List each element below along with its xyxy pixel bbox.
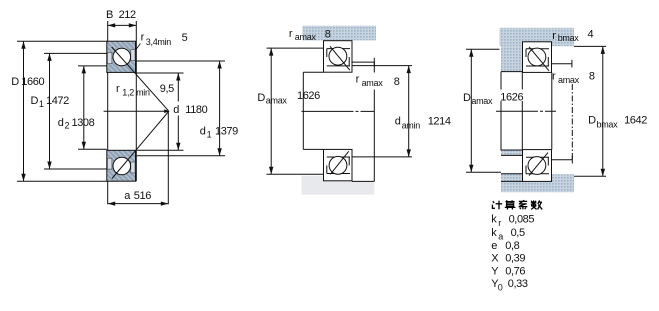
heading 计算系数 (drawn strokes) — [492, 200, 542, 209]
leader r3,4 — [136, 44, 140, 50]
svg-text:e: e — [491, 240, 497, 252]
dimension line Damax (right) — [470, 49, 472, 172]
svg-text:8: 8 — [589, 71, 595, 83]
race shoulder right (right top box) — [547, 57, 549, 66]
svg-text:amax: amax — [295, 32, 317, 42]
svg-text:d: d — [58, 117, 64, 129]
extension line d2 top — [78, 65, 107, 67]
contact diagonal (middle bottom box) — [330, 151, 348, 174]
svg-text:d: d — [395, 116, 401, 128]
contact diagonal (right top box) — [529, 47, 549, 71]
spacer band right edge line — [521, 72, 523, 151]
blue spacer band bottom slab — [501, 174, 574, 192]
extension line Damax top — [267, 47, 324, 49]
r_amax measure line (middle) — [352, 61, 374, 63]
dimension line Dbmax — [602, 46, 604, 176]
extension line Dbmax bottom — [574, 175, 606, 177]
arrow Damax bottom — [269, 167, 273, 175]
bore line bottom (middle figure) — [303, 148, 323, 150]
svg-text:1472: 1472 — [46, 95, 69, 107]
svg-text:D: D — [257, 92, 265, 104]
svg-text:d: d — [173, 104, 179, 116]
extension line Damax bottom (right) — [466, 171, 501, 173]
race shoulder right (middle top box) — [348, 57, 350, 66]
outer race line (right bottom box) — [526, 156, 549, 158]
svg-text:amax: amax — [362, 78, 384, 88]
extension line d2 bottom — [78, 148, 107, 150]
extension line bearing left edge — [107, 21, 109, 204]
glyph 计 — [493, 201, 494, 203]
contact diagonal (middle top box) — [330, 46, 350, 70]
r_amax vertical lower (middle) — [373, 90, 375, 182]
svg-text:k: k — [491, 227, 497, 239]
bore line top (middle figure) — [303, 71, 323, 73]
dimension line d lower part — [177, 116, 179, 151]
white backing for 1626 label (right figure) — [500, 90, 527, 102]
extension line Damax bottom — [267, 173, 325, 175]
inner race line (middle bottom box) — [327, 173, 350, 175]
race shoulder left (middle top box) — [326, 49, 328, 57]
outer ring land notch right (top box) — [131, 50, 135, 61]
svg-text:D: D — [463, 92, 471, 104]
svg-text:8: 8 — [325, 28, 331, 40]
arrow damin bottom — [407, 149, 411, 157]
svg-text:bmax: bmax — [558, 33, 580, 43]
outer ring land notch right (bottom box) — [131, 162, 135, 173]
contact angle diagonal through bottom ball — [112, 112, 169, 179]
extension line damin bottom — [352, 156, 412, 158]
svg-text:k: k — [491, 214, 497, 226]
arrow Damax top (right) — [469, 49, 473, 57]
arrow d2 top — [82, 66, 86, 74]
svg-text:r: r — [498, 218, 501, 228]
svg-text:D: D — [588, 115, 596, 127]
r_amax vertical upper (middle) — [373, 62, 375, 72]
glyph 算 — [506, 201, 515, 203]
bottom cross-section box (middle figure) — [324, 149, 353, 180]
arrow Damax bottom (right) — [469, 165, 473, 173]
svg-text:0: 0 — [498, 282, 503, 292]
arrow d2 bottom — [82, 142, 86, 150]
extension line damin top — [352, 65, 412, 67]
dimension line damin — [408, 66, 410, 157]
outer race line (middle top box) — [327, 48, 350, 50]
svg-text:D: D — [11, 76, 19, 88]
svg-text:9,5: 9,5 — [160, 83, 174, 95]
arrow D bottom — [21, 174, 25, 182]
glyph 系 — [519, 200, 527, 202]
svg-text:0,33: 0,33 — [508, 278, 528, 290]
svg-text:8: 8 — [394, 76, 400, 88]
svg-text:5: 5 — [182, 32, 188, 44]
outer race line (right top box) — [526, 48, 549, 50]
arrow D top — [21, 41, 25, 49]
dimension line d upper part — [177, 73, 179, 102]
extension line D1 bottom — [44, 168, 107, 170]
spacer band left edge line — [500, 72, 502, 151]
ball (bottom box, left figure) — [113, 157, 131, 175]
svg-text:1: 1 — [207, 129, 212, 139]
svg-text:D: D — [31, 95, 39, 107]
blue spacer strip left of bottom box upper — [501, 150, 522, 155]
top cross-section box (middle figure) — [324, 41, 353, 72]
blue banner r_amax (middle figure) — [303, 26, 377, 41]
r_amax dash-dot vertical (right) — [571, 84, 573, 160]
svg-text:4: 4 — [588, 29, 594, 41]
r_amax measure line top (right) — [552, 63, 572, 65]
arrow d1 bottom — [217, 148, 221, 156]
contact diagonal (right bottom box) — [529, 153, 548, 176]
svg-text:1626: 1626 — [500, 91, 523, 103]
centerline (middle figure) — [302, 110, 375, 112]
arrow D1 bottom — [47, 162, 51, 170]
svg-text:amax: amax — [471, 96, 493, 106]
shaft shoulder face line — [302, 72, 304, 149]
svg-text:1214: 1214 — [428, 115, 451, 127]
dimension line B — [108, 24, 137, 26]
svg-text:amax: amax — [558, 75, 580, 85]
svg-text:X: X — [491, 253, 499, 265]
ball (right bottom box) — [528, 157, 546, 175]
inner ring land notch left (bottom box) — [108, 158, 112, 169]
bore silhouette right (right figure) — [551, 72, 553, 149]
svg-text:1180: 1180 — [185, 104, 207, 116]
box bottom edge extension to r_amax (middle) — [352, 180, 374, 182]
extension line D bottom — [17, 180, 107, 182]
inner race line (right bottom box) — [526, 173, 549, 175]
svg-text:0,39: 0,39 — [505, 253, 525, 265]
glyph 数 — [533, 200, 535, 205]
centerline (left figure) — [104, 110, 168, 112]
dimension line d1 — [219, 61, 221, 156]
blue spacer strip left of bottom box lower — [501, 174, 522, 182]
extension line Damax top (right) — [466, 48, 500, 50]
bearing top cross-section box (left figure) — [107, 41, 136, 72]
arrow d top — [176, 73, 180, 81]
arrow Dbmax top — [601, 46, 605, 54]
svg-text:1642: 1642 — [624, 115, 647, 127]
housing shoulder gray block left part — [301, 176, 324, 195]
centerline (right figure) — [496, 110, 556, 112]
race shoulder left (right bottom box) — [525, 166, 527, 174]
ball (middle top box) — [329, 47, 347, 65]
svg-text:Y: Y — [491, 266, 499, 278]
ball (top box, left figure) — [113, 48, 131, 66]
dimension line Damax (middle) — [270, 48, 272, 174]
inner race line (middle top box) — [327, 65, 350, 67]
svg-text:0,085: 0,085 — [509, 214, 535, 226]
svg-text:1626: 1626 — [297, 90, 320, 102]
extension line d1 bottom — [137, 155, 225, 157]
arrow D1 top — [47, 53, 51, 61]
spacer strip lower edge line — [501, 173, 522, 175]
svg-text:amin: amin — [402, 120, 421, 130]
svg-text:1: 1 — [39, 99, 44, 109]
svg-text:212: 212 — [119, 9, 136, 21]
housing shoulder gray block lower part — [324, 181, 374, 195]
extension line d1 top — [136, 60, 225, 62]
extension line d bottom — [137, 149, 184, 151]
race shoulder left (middle bottom box) — [326, 166, 328, 174]
arrow a right — [161, 202, 169, 206]
r_amax measure tick bottom (right) — [571, 156, 573, 164]
r_amax measure line bottom (right) — [552, 159, 572, 161]
svg-text:1,2 min: 1,2 min — [122, 88, 150, 98]
svg-text:a: a — [498, 231, 503, 241]
arrow B right — [129, 23, 137, 27]
extension line D top — [17, 40, 107, 42]
spacer strip mid edge line — [501, 154, 522, 156]
svg-text:bmax: bmax — [597, 119, 619, 129]
outer race line (middle bottom box) — [327, 156, 350, 158]
spacer band bottom edge of upper section — [501, 71, 522, 73]
svg-text:1308: 1308 — [72, 117, 95, 129]
extension line D1 top — [44, 52, 107, 54]
inner race line (right top box) — [526, 65, 549, 67]
top cross-section box (right figure) — [523, 42, 552, 73]
dimension line D — [23, 41, 25, 181]
svg-text:2: 2 — [65, 121, 70, 131]
bearing bottom cross-section box (left figure) — [107, 150, 136, 181]
svg-text:1379: 1379 — [215, 126, 238, 138]
blue banner r_bmax (right figure) — [500, 28, 575, 46]
pressure centre arrowhead — [164, 109, 170, 113]
dimension line d2 — [83, 66, 85, 149]
extension line a right (from pressure centre) — [167, 111, 169, 204]
extension line bearing right edge — [135, 21, 137, 181]
race shoulder right (right bottom box) — [547, 157, 549, 165]
arrow a left — [108, 202, 116, 206]
r_amax measure tick top (right) — [571, 60, 573, 68]
spacer strip top edge at bottom box — [501, 149, 522, 151]
ball (right top box) — [528, 48, 546, 66]
svg-text:0,8: 0,8 — [505, 240, 519, 252]
svg-text:0,5: 0,5 — [511, 227, 525, 239]
svg-text:0,76: 0,76 — [505, 266, 525, 278]
inner ring land notch left (top box) — [108, 53, 112, 64]
dimension line D1 — [49, 53, 51, 169]
bottom cross-section box (right figure) — [523, 150, 552, 182]
arrow Damax top — [269, 48, 273, 56]
svg-text:1660: 1660 — [21, 76, 44, 88]
ball (middle bottom box) — [329, 156, 347, 174]
arrow Dbmax bottom — [601, 169, 605, 177]
arrow d1 top — [217, 61, 221, 69]
arrow B left — [108, 23, 116, 27]
svg-text:d: d — [200, 126, 206, 138]
contact angle diagonal through top ball — [112, 47, 169, 111]
extension line d top — [136, 72, 183, 74]
race shoulder right (middle bottom box) — [348, 157, 350, 166]
arrow damin top — [407, 66, 411, 74]
svg-text:3,4min: 3,4min — [146, 37, 172, 47]
box bottom edge across band — [501, 180, 523, 182]
race shoulder left (right top box) — [525, 49, 527, 57]
arrow d bottom — [176, 143, 180, 151]
svg-text:amax: amax — [266, 96, 288, 106]
blue spacer band left upper — [501, 46, 522, 71]
svg-text:516: 516 — [134, 190, 151, 202]
svg-text:B: B — [106, 9, 113, 21]
extension line Dbmax top — [574, 45, 606, 47]
r_amax measure tick (middle) — [373, 58, 375, 67]
dimension line a — [108, 203, 169, 205]
